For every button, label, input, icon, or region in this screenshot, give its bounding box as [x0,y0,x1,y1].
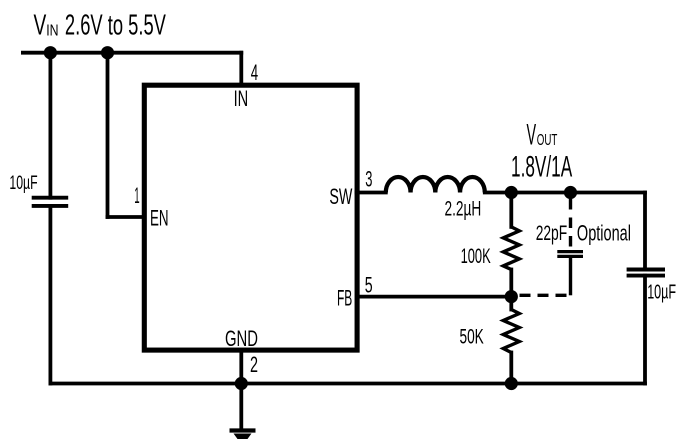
capacitor C3 10uF output plates [627,270,665,276]
svg-text:4: 4 [251,60,258,85]
svg-text:10µF: 10µF [647,282,676,304]
svg-text:V: V [527,119,537,152]
wire SW pin to inductor [357,191,386,195]
capacitor C2 22pF optional dashed top lead [569,199,572,250]
wire FB node to 50K top [509,297,513,310]
capacitor C2 22pF bottom lead [569,258,572,295]
svg-text:V: V [34,10,47,42]
inductor L1 2.2uH [386,177,485,193]
wire ground symbol stem [239,383,243,428]
svg-text:2.6V to 5.5V: 2.6V to 5.5V [65,10,166,42]
svg-text:3: 3 [365,167,372,192]
wire left input cap branch lower [49,206,53,384]
node ground rail junction at 50K [505,377,518,390]
svg-text:IN: IN [234,86,249,111]
wire EN branch horizontal to pin 1 [108,215,145,219]
wire dashed FB node to 22pF [520,294,569,297]
svg-text:Optional: Optional [577,221,631,246]
svg-text:1: 1 [134,183,139,208]
ground symbol [230,431,256,440]
svg-text:22pF: 22pF [536,222,568,245]
node VOUT junction at 22pF [564,186,577,199]
node VIN junction at input cap [44,46,57,59]
wire EN branch vertical [106,53,110,217]
wire VOUT node to 100K top [509,193,513,227]
svg-text:FB: FB [337,286,352,311]
svg-text:5: 5 [365,272,373,297]
wire FB pin to divider node [357,295,511,299]
svg-text:100K: 100K [461,245,491,268]
svg-text:2.2µH: 2.2µH [445,198,482,221]
wire output cap lower [643,276,647,384]
wire 100K bottom to FB node [509,270,513,297]
svg-text:EN: EN [150,206,169,231]
wire output cap upper [643,193,647,270]
wire GND pin drop [239,350,243,384]
wire bottom ground rail [50,382,645,386]
capacitor C1 10uF input plates [32,198,68,206]
node ground rail junction at GND pin [235,377,248,390]
wire pin4 drop from top rail to IN pin [239,53,243,85]
resistor R1 100K zigzag [503,227,519,270]
node FB junction [505,290,518,303]
wire VIN top rail [23,51,241,55]
svg-text:10µF: 10µF [9,172,37,194]
node VOUT junction at 100K [505,186,518,199]
svg-text:50K: 50K [460,326,484,349]
svg-text:1.8V/1A: 1.8V/1A [511,151,572,184]
svg-text:IN: IN [46,23,58,40]
op-amp U1 regulator IC body [144,85,357,350]
wire 50K bottom to ground rail [509,353,513,384]
capacitor C2 22pF plates [557,252,583,257]
wire inductor to VOUT rail and output corner [485,191,645,195]
svg-text:GND: GND [225,326,258,351]
resistor R2 50K zigzag [503,310,519,353]
svg-text:2: 2 [250,352,258,377]
svg-text:SW: SW [329,184,352,209]
wire left input cap branch upper [49,53,53,198]
svg-text:OUT: OUT [537,132,558,149]
node VIN junction at EN branch [101,46,114,59]
